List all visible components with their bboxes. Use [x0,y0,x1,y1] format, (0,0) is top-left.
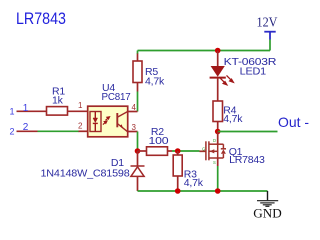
resistor R5 [133,61,142,83]
wire opto pin2 stub [79,130,88,132]
resistor R1 [47,107,68,116]
node rail Q1 junction [215,188,221,194]
opto light arrows [103,117,110,125]
node R2/R3/gate junction [175,148,181,154]
svg-text:12V: 12V [257,15,278,30]
wire bottom rail [138,190,268,192]
wire pin3 down [137,132,139,152]
wire top rail [138,50,271,52]
svg-text:LR7843: LR7843 [229,154,265,166]
svg-text:1N4148W_C81598: 1N4148W_C81598 [41,168,130,180]
resistor R4 [213,101,223,122]
wire net1 [17,110,47,112]
Q1 source wire [217,158,219,166]
diode D1 [131,151,145,191]
svg-text:4,7k: 4,7k [223,113,243,125]
wire opto pin3 stub [128,131,138,133]
resistor R3 [177,151,179,155]
ground GND symbol [257,191,278,206]
svg-text:4,7k: 4,7k [184,177,204,189]
svg-text:1: 1 [78,101,83,110]
svg-text:1: 1 [23,103,29,114]
wire R5 top [137,51,139,55]
LED LED1 [210,51,234,102]
svg-text:1k: 1k [52,94,64,106]
junction top rail / LED [215,48,221,54]
resistor R2 [147,147,168,156]
node D1/R2 junction [135,148,141,154]
svg-text:LED1: LED1 [240,66,267,78]
svg-text:3: 3 [132,123,137,132]
op-to U4 body [88,106,128,137]
wire junction to R2 [138,150,147,152]
wire net2 green [38,130,80,132]
svg-text:2: 2 [10,127,15,137]
svg-text:4,7k: 4,7k [145,76,165,88]
Q1 drain wire [217,132,219,145]
svg-text:S: S [213,160,216,165]
svg-text:G: G [202,147,205,152]
wire R1 to opto [68,110,88,112]
opto inner LED box [90,112,101,132]
svg-text:4: 4 [132,103,137,112]
wire R2 right [168,150,173,152]
wire R4 bottom [217,122,219,132]
svg-text:D: D [213,138,216,143]
svg-text:LR7843: LR7843 [16,9,66,28]
supply symbol 12V [264,32,275,40]
svg-text:1: 1 [10,107,15,117]
opto LED diode [93,112,98,132]
svg-text:2: 2 [78,122,83,131]
svg-text:2: 2 [23,122,29,133]
opto phototransistor [117,112,127,132]
wire net2 red stub [17,130,38,132]
svg-text:GND: GND [253,206,282,220]
svg-text:100: 100 [149,135,169,147]
svg-text:PC817: PC817 [102,91,131,103]
wire 12V drop [269,40,271,51]
node Out- junction [215,129,221,135]
wire Out- [218,131,278,133]
wire R5 bottom [137,83,139,92]
wire R3 bottom [177,176,179,191]
wire opto pin4 stub [128,111,138,113]
svg-text:Out -: Out - [278,114,309,130]
node rail R3 junction [175,188,181,194]
transistor Q1 MOSFET [200,141,227,160]
